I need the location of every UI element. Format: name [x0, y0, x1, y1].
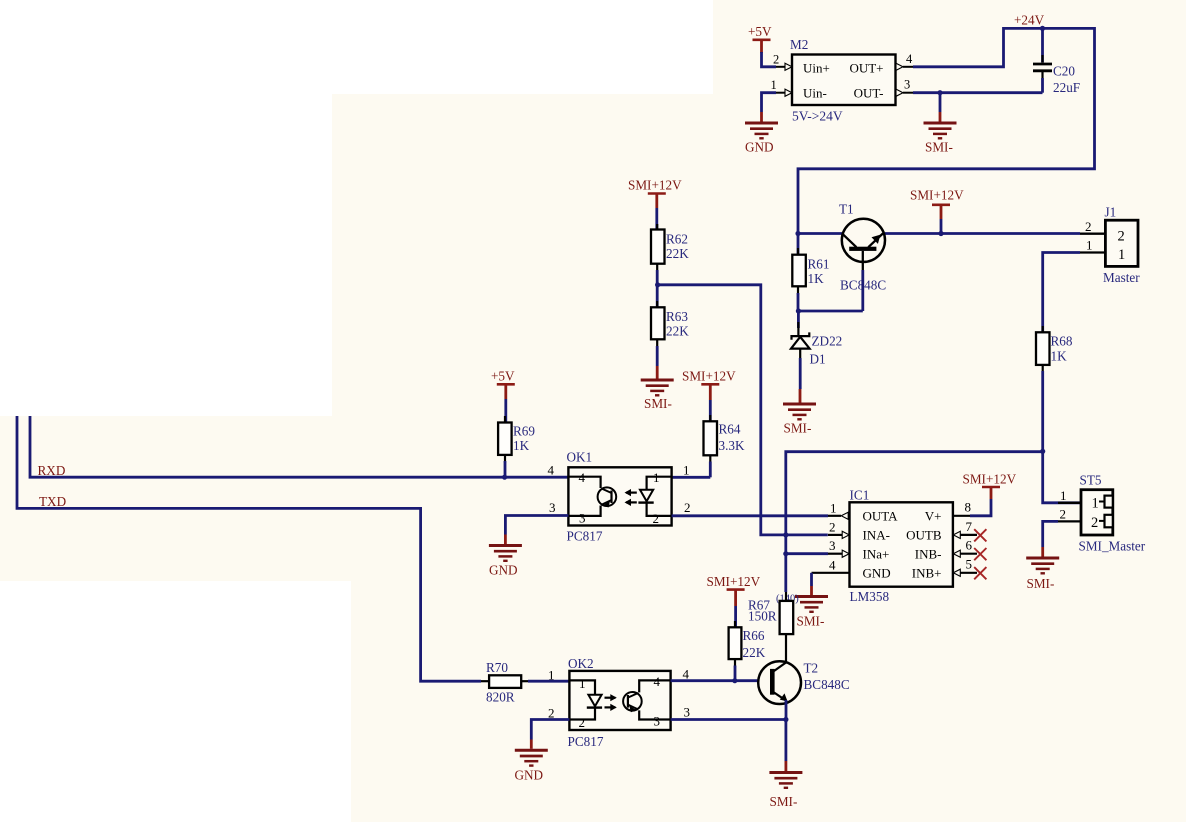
- wire RXD: [30, 416, 568, 477]
- power SMI+12V (R64): [682, 369, 736, 423]
- svg-text:T1: T1: [839, 202, 854, 217]
- wire base node: [798, 310, 862, 313]
- svg-text:+24V: +24V: [1014, 13, 1045, 28]
- resistor R64: [704, 415, 745, 477]
- svg-text:2: 2: [684, 500, 691, 515]
- svg-text:3: 3: [654, 714, 661, 729]
- svg-text:1K: 1K: [1051, 349, 1068, 364]
- node J1/ST5 junction: [1040, 449, 1045, 454]
- wire T1 base down: [861, 270, 864, 311]
- pin 7 of IC1: [953, 519, 977, 539]
- svg-text:T2: T2: [804, 660, 819, 675]
- zener diode ZD22 D1: [791, 311, 842, 389]
- connector ST5: [1058, 473, 1146, 554]
- ground GND (OK1): [489, 535, 522, 578]
- pin 5 of IC1: [953, 557, 977, 577]
- svg-text:22K: 22K: [666, 324, 689, 339]
- wire IC1 GND pin to ground: [810, 573, 813, 586]
- ground SMI- (IC1): [795, 586, 828, 629]
- no-connect X pin 6: [974, 548, 986, 560]
- pin 2 of IC1: [828, 519, 849, 538]
- svg-text:OUTA: OUTA: [863, 509, 899, 524]
- svg-text:R68: R68: [1051, 334, 1073, 349]
- svg-text:2: 2: [1060, 507, 1067, 522]
- svg-text:R69: R69: [513, 424, 535, 439]
- svg-text:+5V: +5V: [491, 369, 515, 384]
- svg-text:OUTB: OUTB: [906, 528, 942, 543]
- wire J1 pin1 to R68: [1043, 253, 1080, 335]
- svg-text:1: 1: [548, 667, 555, 682]
- node R66/base junction: [732, 678, 737, 683]
- wire M2 pin1 to GND: [762, 93, 777, 112]
- node divider junction: [655, 282, 660, 287]
- svg-text:SMI-: SMI-: [770, 794, 798, 809]
- svg-text:R62: R62: [666, 232, 688, 247]
- node RXD/R69 junction: [502, 475, 507, 480]
- optocoupler OK1 PC817: [548, 450, 691, 544]
- svg-text:1: 1: [771, 78, 777, 92]
- svg-text:1: 1: [579, 676, 586, 691]
- wire T1 emitter to J1 pin 2: [885, 232, 1080, 235]
- resistor R62: [651, 224, 689, 285]
- svg-text:3.3K: 3.3K: [719, 438, 745, 453]
- connector J1: [1080, 205, 1140, 286]
- svg-text:5: 5: [966, 557, 973, 572]
- svg-text:8: 8: [965, 499, 972, 514]
- svg-text:SMI-: SMI-: [644, 396, 672, 411]
- power +5V (R69): [491, 369, 515, 425]
- svg-text:1K: 1K: [808, 271, 825, 286]
- svg-text:R64: R64: [719, 422, 741, 437]
- no-connect X pin 5: [974, 567, 986, 579]
- pin 2 arrow: [776, 63, 792, 70]
- svg-text:LM358: LM358: [850, 589, 890, 604]
- svg-text:SMI_Master: SMI_Master: [1079, 538, 1146, 553]
- wire +5V to M2 pin 2: [762, 52, 777, 67]
- svg-text:PC817: PC817: [568, 734, 604, 749]
- resistor R70: [481, 660, 569, 704]
- wire R67 branch down to IC1 INa+: [784, 535, 787, 592]
- wire OK2 pin3 to emitter node: [671, 718, 786, 721]
- ground SMI- (zener): [783, 389, 816, 436]
- svg-text:INA-: INA-: [863, 528, 890, 543]
- svg-text:1: 1: [683, 463, 690, 478]
- node INa+ junction: [783, 551, 788, 556]
- wire OK2 pin2 to GND: [531, 720, 569, 740]
- wire collector junction to T1: [798, 232, 842, 235]
- svg-text:2: 2: [773, 53, 779, 67]
- svg-text:3: 3: [579, 511, 586, 526]
- svg-text:OK1: OK1: [567, 450, 593, 465]
- svg-text:22uF: 22uF: [1053, 80, 1080, 95]
- wire M2 pin3 (OUT-): [913, 91, 1043, 94]
- node OUT- / SMI- junction: [937, 90, 942, 95]
- wire node down to ground: [785, 720, 788, 762]
- svg-text:V+: V+: [925, 509, 942, 524]
- wire OUT- to SMI- ground: [939, 93, 942, 112]
- wire M2 pin4 to +24V rail: [798, 28, 1095, 233]
- svg-text:3: 3: [829, 538, 836, 553]
- svg-text:3: 3: [904, 78, 910, 92]
- svg-text:3: 3: [549, 500, 556, 515]
- svg-text:4: 4: [829, 557, 836, 572]
- svg-text:OK2: OK2: [568, 656, 594, 671]
- wire OK2 pin4 to T2 base: [671, 679, 759, 682]
- no-connect X pin 7: [974, 529, 986, 541]
- svg-text:SMI-: SMI-: [784, 421, 812, 436]
- power SMI+12V (IC1 V+): [963, 472, 1017, 516]
- svg-text:GND: GND: [515, 768, 544, 783]
- pin 4 arrow: [896, 63, 913, 70]
- svg-text:OUT-: OUT-: [854, 86, 884, 101]
- svg-text:GND: GND: [863, 566, 891, 581]
- wire node to IC1 pin3: [786, 552, 828, 555]
- svg-text:SMI-: SMI-: [1027, 576, 1055, 591]
- svg-text:6: 6: [966, 538, 973, 553]
- resistor R69: [498, 416, 535, 477]
- ground SMI- (T2): [769, 761, 802, 809]
- node INA- branch junction: [783, 532, 788, 537]
- svg-text:150R: 150R: [748, 608, 777, 623]
- op-amp IC1 LM358: [850, 488, 953, 605]
- pin 6 of IC1: [953, 538, 977, 558]
- pin 8 of IC1: [953, 499, 972, 515]
- optocoupler OK2 PC817: [548, 656, 690, 749]
- wire TXD: [17, 416, 481, 681]
- power SMI+12V (R66): [707, 574, 761, 629]
- svg-text:1: 1: [1086, 238, 1093, 253]
- svg-text:RXD: RXD: [38, 463, 66, 478]
- svg-text:M2: M2: [790, 37, 808, 52]
- white background patch left: [0, 0, 332, 416]
- resistor R66: [729, 621, 766, 681]
- svg-text:1: 1: [1118, 247, 1125, 263]
- svg-text:2: 2: [1091, 515, 1098, 531]
- wire ST5 pin2 to ground: [1043, 521, 1058, 547]
- svg-text:R63: R63: [666, 309, 688, 324]
- wire OK1 pin3 to GND: [505, 516, 568, 535]
- pin 3 of IC1: [828, 538, 849, 557]
- svg-text:Uin+: Uin+: [803, 61, 830, 76]
- svg-text:PC817: PC817: [567, 529, 603, 544]
- svg-text:Uin-: Uin-: [803, 86, 827, 101]
- node emitter junction: [783, 717, 788, 722]
- svg-text:R70: R70: [486, 660, 508, 675]
- svg-text:4: 4: [683, 666, 690, 681]
- capacitor C20: [1033, 28, 1080, 95]
- svg-text:1: 1: [830, 500, 837, 515]
- svg-text:2: 2: [829, 519, 836, 534]
- white background patch top: [0, 0, 713, 94]
- svg-text:22K: 22K: [666, 246, 689, 261]
- resistor R67: [748, 592, 793, 662]
- svg-text:J1: J1: [1105, 205, 1117, 220]
- svg-text:INB-: INB-: [915, 547, 942, 562]
- svg-text:3: 3: [684, 705, 691, 720]
- svg-text:+5V: +5V: [748, 24, 772, 39]
- svg-text:ZD22: ZD22: [812, 334, 843, 349]
- svg-text:D1: D1: [810, 352, 826, 367]
- svg-text:SMI-: SMI-: [797, 614, 825, 629]
- pin 1 of IC1: [828, 500, 848, 519]
- transistor T1 BC848C: [839, 202, 886, 293]
- svg-text:820R: 820R: [486, 689, 515, 704]
- svg-text:4: 4: [906, 52, 913, 66]
- svg-text:SMI+12V: SMI+12V: [707, 574, 761, 589]
- white background patch bottom-left: [0, 581, 351, 822]
- svg-text:1: 1: [1060, 488, 1067, 503]
- transistor T2 BC848C: [758, 660, 850, 704]
- svg-text:TXD: TXD: [39, 494, 66, 509]
- node R61/base/zener junction: [796, 308, 801, 313]
- module M2: [771, 37, 914, 123]
- svg-text:BC848C: BC848C: [804, 677, 850, 692]
- svg-text:7: 7: [966, 519, 973, 534]
- ground SMI- (R63): [641, 366, 674, 411]
- svg-text:5V->24V: 5V->24V: [792, 108, 843, 123]
- ground GND (M2): [745, 112, 778, 155]
- power +5V (M2 input): [748, 24, 772, 53]
- svg-text:IC1: IC1: [850, 488, 870, 503]
- ground SMI- (M2 out): [924, 112, 957, 155]
- svg-text:SMI+12V: SMI+12V: [628, 178, 682, 193]
- wire R68 down to node: [1041, 371, 1044, 451]
- power SMI+12V (R62 divider): [628, 178, 682, 232]
- svg-text:2: 2: [1118, 229, 1125, 245]
- svg-text:R61: R61: [808, 257, 830, 272]
- svg-text:2: 2: [653, 511, 660, 526]
- svg-text:C20: C20: [1053, 64, 1075, 79]
- svg-text:INB+: INB+: [912, 566, 942, 581]
- svg-text:4: 4: [654, 674, 661, 689]
- pin 3 arrow: [896, 89, 913, 96]
- node +24V junction: [1040, 26, 1045, 31]
- pin 4 of IC1: [812, 557, 850, 573]
- resistor R63: [651, 285, 689, 366]
- svg-text:2: 2: [1085, 219, 1092, 234]
- svg-text:2: 2: [579, 715, 586, 730]
- svg-text:1: 1: [1092, 496, 1099, 512]
- ground GND (OK2): [515, 740, 548, 783]
- svg-text:GND: GND: [745, 140, 774, 155]
- wire divider to IC1 INA-: [658, 285, 828, 535]
- svg-text:OUT+: OUT+: [849, 61, 883, 76]
- svg-text:R66: R66: [743, 628, 765, 643]
- ground SMI- (ST5): [1026, 547, 1059, 591]
- svg-text:4: 4: [548, 463, 555, 478]
- svg-text:SMI+12V: SMI+12V: [910, 188, 964, 203]
- svg-text:ST5: ST5: [1080, 473, 1102, 488]
- svg-text:SMI-: SMI-: [925, 140, 953, 155]
- wire R64 to OK1 pin1: [672, 476, 711, 479]
- wire node down to ST5 pin1: [1043, 451, 1081, 503]
- svg-text:SMI+12V: SMI+12V: [682, 369, 736, 384]
- svg-text:GND: GND: [489, 563, 518, 578]
- svg-text:INa+: INa+: [863, 547, 890, 562]
- pin 1 arrow: [776, 89, 792, 96]
- wire T2 emitter down: [785, 700, 788, 720]
- svg-text:22K: 22K: [743, 645, 766, 660]
- wire OK1 pin2 to IC1 pin1: [672, 514, 828, 517]
- wire node to R67 branch corner: [786, 452, 1043, 535]
- resistor R61: [792, 234, 829, 312]
- node T1 collector junction: [795, 231, 800, 236]
- svg-text:Master: Master: [1103, 270, 1140, 285]
- node emitter rail junction: [938, 231, 943, 236]
- svg-text:1K: 1K: [513, 438, 530, 453]
- svg-text:SMI+12V: SMI+12V: [963, 472, 1017, 487]
- resistor R68: [1036, 326, 1073, 373]
- power SMI+12V (T1 emitter rail): [910, 188, 964, 234]
